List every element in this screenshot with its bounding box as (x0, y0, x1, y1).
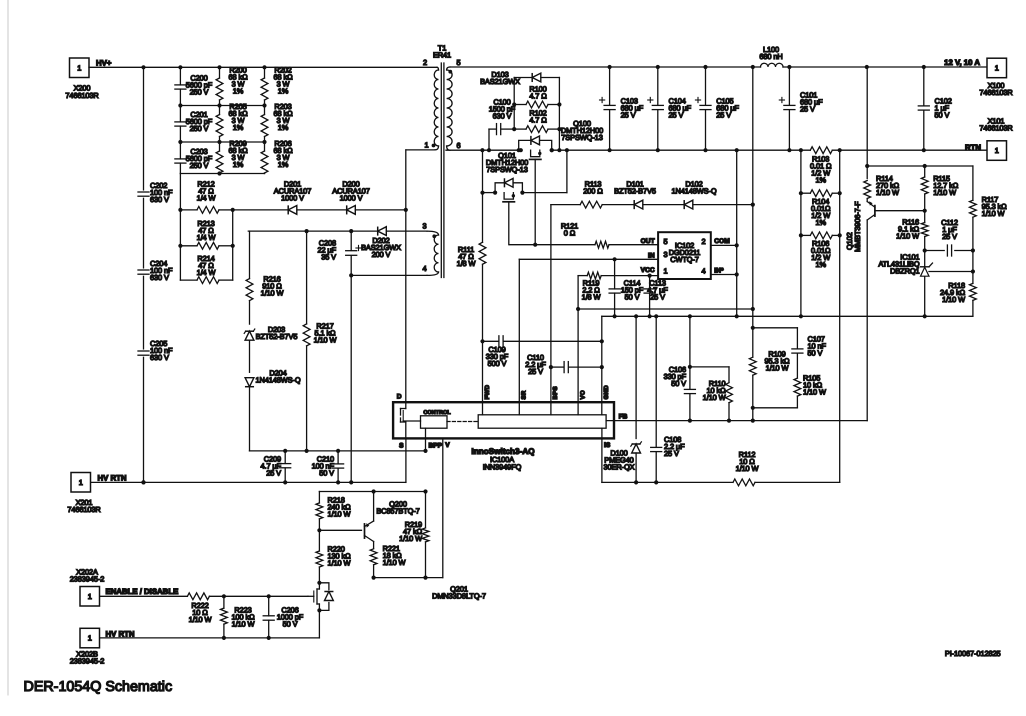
svg-text:1/10 W: 1/10 W (189, 615, 212, 624)
svg-text:2: 2 (423, 58, 427, 67)
svg-text:5: 5 (664, 237, 668, 246)
svg-text:1/10 W: 1/10 W (383, 558, 406, 567)
svg-text:COM: COM (714, 238, 730, 245)
svg-text:1%: 1% (278, 160, 289, 169)
svg-text:630 V: 630 V (493, 112, 512, 121)
svg-text:30ER-QX: 30ER-QX (604, 463, 635, 472)
svg-text:5: 5 (457, 58, 461, 67)
svg-text:1%: 1% (233, 160, 244, 169)
svg-text:3: 3 (422, 222, 426, 231)
svg-text:1/4 W: 1/4 W (197, 268, 216, 277)
svg-text:4: 4 (701, 267, 705, 276)
svg-text:50 V: 50 V (625, 293, 640, 302)
svg-text:25 V: 25 V (528, 367, 543, 376)
svg-text:INN3949FQ: INN3949FQ (483, 463, 522, 472)
svg-text:7466103R: 7466103R (65, 91, 98, 100)
svg-text:DBZRQ1: DBZRQ1 (890, 267, 919, 276)
svg-text:1/10 W: 1/10 W (942, 295, 965, 304)
svg-text:7466103R: 7466103R (979, 88, 1012, 97)
svg-text:2: 2 (701, 237, 705, 246)
svg-text:HV RTN: HV RTN (98, 474, 127, 483)
svg-text:2383945-2: 2383945-2 (70, 575, 104, 584)
svg-text:250 V: 250 V (190, 88, 209, 97)
svg-text:1%: 1% (233, 87, 244, 96)
svg-text:1/4 W: 1/4 W (197, 194, 216, 203)
svg-text:4: 4 (422, 264, 426, 273)
svg-text:V: V (445, 442, 450, 449)
svg-text:HV RTN: HV RTN (106, 629, 135, 638)
svg-text:1: 1 (424, 141, 428, 150)
svg-text:630 V: 630 V (150, 195, 169, 204)
svg-text:BZT52-B7V5: BZT52-B7V5 (256, 332, 298, 341)
svg-text:50 V: 50 V (319, 469, 334, 478)
svg-text:2383945-2: 2383945-2 (70, 657, 104, 666)
svg-text:1: 1 (88, 634, 92, 643)
svg-text:500 V: 500 V (488, 359, 507, 368)
svg-text:DMN33D8LTQ-7: DMN33D8LTQ-7 (432, 592, 486, 601)
svg-text:1/10 W: 1/10 W (803, 388, 826, 397)
svg-text:200 V: 200 V (372, 250, 391, 259)
svg-text:IN: IN (648, 252, 655, 259)
svg-text:25 V: 25 V (716, 111, 731, 120)
svg-text:1/10 W: 1/10 W (232, 620, 255, 629)
svg-text:630 V: 630 V (150, 273, 169, 282)
svg-text:200 Ω: 200 Ω (583, 187, 603, 196)
svg-text:1%: 1% (233, 123, 244, 132)
svg-text:1/10 W: 1/10 W (896, 232, 919, 241)
svg-text:1/10 W: 1/10 W (766, 364, 789, 373)
svg-text:1: 1 (77, 63, 81, 72)
svg-text:RTN: RTN (965, 143, 981, 152)
svg-text:HV+: HV+ (96, 59, 112, 68)
svg-text:1/8 W: 1/8 W (582, 293, 601, 302)
svg-text:ENABLE / DISABLE: ENABLE / DISABLE (106, 587, 179, 596)
svg-text:0 Ω: 0 Ω (564, 229, 576, 238)
svg-text:25 V: 25 V (650, 293, 665, 302)
svg-text:250 V: 250 V (190, 124, 209, 133)
svg-text:D: D (397, 394, 402, 401)
svg-text:FWD: FWD (484, 384, 491, 399)
svg-text:630 V: 630 V (150, 353, 169, 362)
svg-text:1/10 W: 1/10 W (399, 534, 422, 543)
svg-text:25 V: 25 V (621, 111, 636, 120)
svg-text:1/4 W: 1/4 W (197, 233, 216, 242)
svg-text:7466103R: 7466103R (979, 124, 1012, 133)
svg-text:7466103R: 7466103R (67, 505, 100, 514)
svg-text:OUT: OUT (641, 238, 655, 245)
svg-text:25 V: 25 V (266, 469, 281, 478)
svg-text:50 V: 50 V (283, 620, 298, 629)
svg-text:25 V: 25 V (669, 111, 684, 120)
svg-text:BZT52-B7V5: BZT52-B7V5 (614, 187, 656, 196)
svg-text:7SPSWQ-13: 7SPSWQ-13 (561, 133, 602, 142)
svg-text:4.7 Ω: 4.7 Ω (529, 116, 547, 125)
svg-text:1/10 W: 1/10 W (933, 188, 956, 197)
svg-text:1/10 W: 1/10 W (261, 289, 284, 298)
svg-text:25 V: 25 V (664, 449, 679, 458)
svg-text:ER41: ER41 (433, 51, 451, 60)
svg-text:CONTROL: CONTROL (423, 410, 451, 416)
svg-text:50 V: 50 V (935, 111, 950, 120)
svg-text:1/10 W: 1/10 W (703, 393, 726, 402)
svg-text:4.7 Ω: 4.7 Ω (529, 92, 547, 101)
svg-text:50 V: 50 V (808, 349, 823, 358)
svg-text:1/10 W: 1/10 W (982, 209, 1005, 218)
svg-text:25 V: 25 V (800, 105, 815, 114)
svg-text:7SPSWQ-13: 7SPSWQ-13 (486, 165, 527, 174)
svg-text:1N4148WS-Q: 1N4148WS-Q (255, 376, 300, 385)
svg-text:6: 6 (457, 141, 461, 150)
svg-text:1/10 W: 1/10 W (876, 188, 899, 197)
svg-text:1/10 W: 1/10 W (314, 336, 337, 345)
svg-text:50 V: 50 V (671, 379, 686, 388)
svg-text:1/10 W: 1/10 W (328, 559, 351, 568)
svg-text:MMBT3906-7-F: MMBT3906-7-F (853, 201, 862, 252)
svg-text:680 nH: 680 nH (759, 52, 782, 61)
svg-text:1%: 1% (278, 87, 289, 96)
svg-text:DER-1054Q Schematic: DER-1054Q Schematic (24, 679, 173, 695)
svg-text:1: 1 (995, 146, 999, 155)
svg-text:1%: 1% (278, 123, 289, 132)
svg-text:CWTQ-7: CWTQ-7 (670, 255, 699, 264)
svg-text:FB: FB (619, 414, 628, 421)
svg-text:1: 1 (664, 267, 668, 276)
svg-text:250 V: 250 V (190, 161, 209, 170)
svg-text:1%: 1% (815, 218, 826, 227)
svg-text:1/10 W: 1/10 W (736, 464, 759, 473)
svg-text:3: 3 (664, 250, 668, 259)
svg-text:1/8 W: 1/8 W (457, 259, 476, 268)
svg-text:PI-10067-012825: PI-10067-012825 (945, 649, 1001, 658)
svg-text:1N4148WS-Q: 1N4148WS-Q (671, 187, 716, 196)
svg-text:BC857BTQ-7: BC857BTQ-7 (376, 507, 419, 516)
svg-text:1000 V: 1000 V (281, 194, 304, 203)
svg-text:IN*: IN* (714, 268, 724, 275)
svg-text:VCC: VCC (641, 267, 655, 274)
svg-text:1%: 1% (815, 176, 826, 185)
svg-text:1000 V: 1000 V (340, 194, 363, 203)
svg-text:S: S (399, 443, 404, 450)
svg-text:BPS: BPS (552, 386, 559, 399)
svg-text:SR: SR (521, 390, 528, 399)
svg-text:BAS21GWX: BAS21GWX (480, 77, 520, 86)
svg-text:12 V, 10 A: 12 V, 10 A (944, 58, 980, 67)
svg-text:1: 1 (79, 478, 83, 487)
svg-text:1%: 1% (815, 260, 826, 269)
svg-text:1/10 W: 1/10 W (328, 510, 351, 519)
svg-text:BPP: BPP (429, 443, 443, 450)
svg-text:1: 1 (88, 592, 92, 601)
svg-text:VO: VO (579, 390, 586, 399)
svg-text:GND: GND (603, 385, 610, 400)
svg-text:25 V: 25 V (942, 232, 957, 241)
svg-text:35 V: 35 V (321, 253, 336, 262)
svg-text:1: 1 (995, 64, 999, 73)
